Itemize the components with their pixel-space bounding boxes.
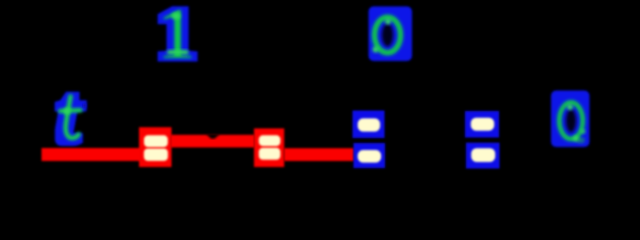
glyph accent: bright cross of "t" [64, 108, 71, 115]
wire segment W1 (low level, left) [42, 148, 142, 161]
label "t" (time variable) [56, 70, 82, 159]
wire segment W3 (low level, right) [284, 148, 354, 161]
svg-text:1: 1 [157, 0, 196, 74]
capacitor C1 lower plate (blue box) [354, 143, 386, 168]
wire gap notch on W2 [206, 134, 220, 139]
glyph accent: bright spot on "1" flag tip [172, 13, 181, 20]
capacitor C2 upper plate (blue box) [465, 111, 499, 138]
capacitor C2 lower plate (blue box) [466, 143, 500, 169]
label "0" (logic value zero, top) [369, 6, 413, 61]
label "0" (result zero, right) [551, 91, 590, 148]
glyph accent: green spill bottom-right of "0" (right) [577, 138, 585, 144]
C1 upper plate core bar [358, 118, 380, 131]
C2 lower plate core bar [471, 148, 495, 162]
glyph accent: t crossbar right tick [83, 104, 87, 108]
J2 lower plate bar [259, 148, 281, 160]
glyph accent: bright base bar of "1" [167, 50, 189, 54]
J1 upper plate bar [144, 135, 168, 147]
C1 lower plate core bar [358, 150, 381, 163]
capacitor C1 upper plate (blue box) [353, 111, 385, 139]
J2 upper plate bar [259, 135, 281, 146]
wire segment W2 (high level, middle) [171, 135, 255, 148]
C2 upper plate core bar [471, 118, 494, 131]
transition junction J2 (red box) [254, 128, 284, 167]
transition junction J1 (red box) [139, 127, 172, 167]
glyph accent: bright dot bottom of "0" (right) [573, 136, 579, 142]
label "t" green core skeleton [60, 97, 80, 139]
glyph accent: bright dot top of "0" (top) [385, 19, 391, 25]
label "1" (logic value one) [157, 0, 196, 74]
J1 lower plate bar [144, 149, 168, 161]
glyph accent: bright dot bottom-left of "0" (top) [373, 47, 379, 53]
glyph accent: bright dot right edge of "0" (right) [581, 129, 585, 133]
glyph accent: bright dot top of "0" (right) [567, 104, 573, 110]
